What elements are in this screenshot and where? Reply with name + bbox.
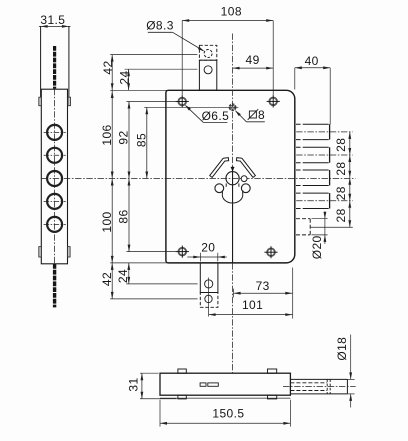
svg-text:42: 42	[101, 60, 115, 74]
svg-text:40: 40	[305, 54, 319, 68]
svg-text:28: 28	[334, 162, 348, 176]
svg-text:Ø18: Ø18	[335, 337, 349, 361]
svg-text:108: 108	[221, 5, 242, 19]
svg-text:31: 31	[127, 377, 141, 391]
svg-text:49: 49	[246, 53, 260, 67]
svg-text:150.5: 150.5	[212, 407, 244, 421]
svg-text:31.5: 31.5	[40, 13, 65, 27]
svg-text:28: 28	[334, 138, 348, 152]
svg-text:Ø6.5: Ø6.5	[202, 109, 230, 123]
svg-text:24: 24	[118, 70, 132, 84]
svg-text:101: 101	[242, 298, 263, 312]
svg-text:100: 100	[100, 211, 114, 232]
svg-text:Ø20: Ø20	[310, 235, 324, 259]
svg-text:20: 20	[201, 241, 215, 255]
svg-text:24: 24	[116, 269, 130, 283]
svg-text:73: 73	[256, 279, 270, 293]
svg-text:28: 28	[334, 208, 348, 222]
svg-text:92: 92	[117, 130, 131, 144]
svg-text:Ø8.3: Ø8.3	[146, 19, 174, 33]
svg-text:85: 85	[135, 133, 149, 147]
svg-text:106: 106	[100, 124, 114, 145]
svg-text:8: 8	[258, 108, 265, 122]
svg-text:28: 28	[334, 186, 348, 200]
svg-text:86: 86	[117, 209, 131, 223]
svg-text:42: 42	[100, 272, 114, 286]
